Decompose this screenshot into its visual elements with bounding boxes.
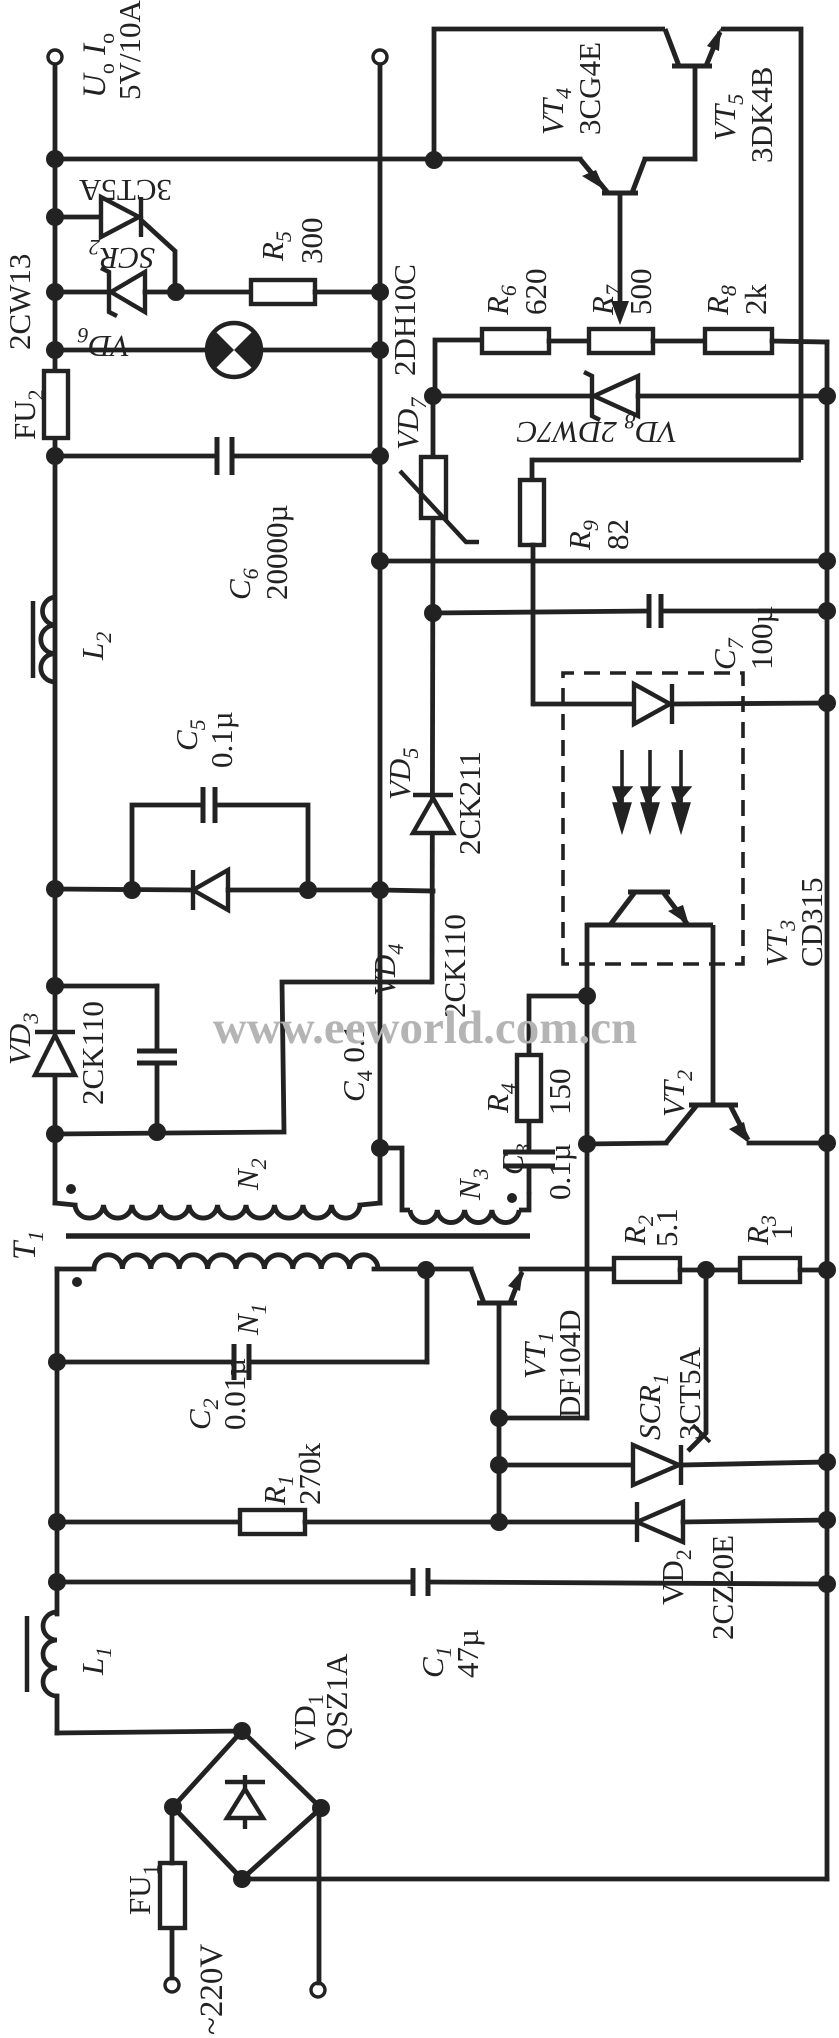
capacitor C4: [137, 1051, 177, 1063]
wire LED feed down: [533, 702, 634, 707]
wire SCR1 anode: [499, 1463, 633, 1468]
light arrow 1: [615, 750, 630, 829]
wire SCR1 gate: [688, 1270, 706, 1451]
wire output sense line upper: [55, 157, 580, 162]
junction bridge right vertex: [233, 1722, 251, 1740]
bridge rectifier VD1: [173, 1731, 321, 1879]
wire FU1 to bridge: [170, 1807, 175, 1863]
svg-text:~220V: ~220V: [194, 1944, 230, 2035]
junction VD8 on bottom rail: [818, 387, 836, 405]
terminal AC input upper: [165, 1978, 179, 1992]
junction W1 to VT2 collector: [578, 1135, 596, 1153]
junction C1 bottom on bottom rail: [818, 1575, 836, 1593]
resistor R5: [251, 280, 315, 304]
wire N3 to C3: [527, 1166, 532, 1192]
wire VT4 base to R7 wiper: [618, 193, 623, 313]
wire N2 top jog to rail A: [55, 1203, 75, 1205]
capacitor C6: [217, 437, 232, 475]
wire C4 to left leg: [155, 1063, 160, 1132]
wire R6 top jog: [435, 340, 482, 396]
wire R2 to R3: [680, 1268, 740, 1273]
wire VT5 base: [693, 70, 698, 159]
transistor VT1: [471, 1269, 522, 1303]
optocoupler dashed box: [563, 673, 743, 964]
wire R8 to bottom rail: [772, 341, 827, 342]
svg-text:1: 1: [764, 1225, 799, 1241]
wire VD8 lower to bottom rail: [638, 394, 827, 399]
resistor R4: [517, 1055, 541, 1121]
transformer T1 core: [66, 1233, 530, 1239]
diode VD2: [637, 1502, 683, 1542]
junction SCR2 top on rail A: [46, 208, 64, 226]
svg-text:150: 150: [542, 1069, 577, 1116]
wire VD2 anode to bottom rail: [683, 1520, 827, 1522]
wire VD4 lower to mid rail: [228, 888, 380, 893]
transformer winding N2: [75, 1205, 360, 1218]
transformer winding N3: [410, 1210, 519, 1223]
wire C6 upper: [55, 454, 217, 459]
wire VT1 base node line: [497, 1303, 502, 1522]
wire bridge positive up to rail B: [57, 1731, 242, 1733]
svg-text:3CG4E: 3CG4E: [572, 42, 607, 135]
junction x1477 on bottom rail: [818, 552, 836, 570]
junction lamp top on rail A: [46, 341, 64, 359]
svg-text:5V/10A: 5V/10A: [112, 0, 147, 100]
capacitor C7: [649, 594, 661, 628]
junction bridge bottom vertex: [312, 1799, 330, 1817]
zener diode VD8: [584, 372, 638, 420]
wire C1 upper: [57, 1580, 413, 1585]
junction base node B (SCR1): [490, 1456, 508, 1474]
node N2 phase dot: [66, 1184, 76, 1194]
capacitor C2: [234, 1344, 249, 1380]
wire R4 to W1 node: [529, 996, 587, 1055]
svg-text:3DK4B: 3DK4B: [744, 67, 779, 163]
wire N3 top terminal: [380, 1148, 410, 1210]
junction C5 top on VD4 line: [123, 881, 141, 899]
junction VD4 line on mid rail: [371, 881, 389, 899]
junction C7 on bottom rail: [818, 602, 836, 620]
svg-text:0.01µ: 0.01µ: [217, 1358, 252, 1430]
thyristor SCR2: [101, 197, 141, 237]
wire C7 lower: [661, 609, 827, 614]
svg-text:3CT5A: 3CT5A: [78, 173, 172, 208]
svg-text:270k: 270k: [292, 1443, 327, 1506]
wire C5 loop lower: [215, 805, 308, 890]
junction C4 right on rail A: [46, 977, 64, 995]
fuse FU1: [160, 1863, 185, 1928]
diode VD5: [413, 795, 453, 833]
junction C6 on mid rail: [371, 447, 389, 465]
wire N1 bottom to VT1 collector node: [374, 1267, 426, 1272]
svg-text:DF104D: DF104D: [552, 1309, 587, 1418]
terminal output negative: [373, 50, 387, 64]
svg-text:500: 500: [623, 269, 658, 316]
wire lamp upper: [55, 348, 207, 353]
svg-text:2CK110: 2CK110: [75, 1001, 110, 1105]
wire C7 upper: [433, 611, 649, 613]
wire VT1 collector: [426, 1267, 471, 1272]
junction SCR2 gate on VD6-R5 line: [167, 283, 185, 301]
wire bridge negative down to bottom rail: [242, 1877, 827, 1882]
junction lamp on mid rail: [371, 341, 389, 359]
wire W1 feedback line: [585, 925, 590, 1418]
wire R6 to R7: [549, 339, 589, 344]
resistor R6: [482, 329, 549, 353]
light arrow 2: [643, 750, 658, 829]
wire mid rail to bottom rail link: [380, 559, 827, 564]
svg-text:VD8 2DW7C: VD8 2DW7C: [517, 409, 677, 450]
junction VT1 collector node: [417, 1261, 435, 1279]
svg-text:0.1µ: 0.1µ: [204, 711, 239, 768]
wire VD5-VD7 line: [432, 518, 433, 982]
transformer winding N1: [94, 1255, 378, 1269]
wire R9 left to LED feed: [531, 545, 536, 704]
wire C4 right leg: [55, 984, 157, 989]
wire LED cathode to bottom rail: [672, 703, 827, 704]
wire SCR2 anode: [55, 215, 101, 220]
wire N1 top jog: [57, 1267, 94, 1272]
svg-text:47µ: 47µ: [450, 1629, 485, 1678]
svg-text:620: 620: [518, 269, 553, 316]
inductor L2: [41, 597, 55, 682]
terminal output positive: [48, 50, 62, 64]
junction LED on bottom rail: [818, 694, 836, 712]
junction C2 top on rail B: [48, 1353, 66, 1371]
wire C4 to right leg: [155, 986, 160, 1051]
junction base node C (R1/VD2): [490, 1513, 508, 1531]
wire C1 lower: [428, 1582, 827, 1584]
svg-text:20000µ: 20000µ: [259, 505, 294, 600]
wire VD6 anode to R5: [145, 290, 251, 295]
junction VT2 emitter on bottom rail: [818, 1134, 836, 1152]
junction R1 top on rail B: [48, 1513, 66, 1531]
light arrow 3: [674, 750, 689, 829]
svg-text:100µ: 100µ: [744, 606, 779, 670]
svg-text:CD315: CD315: [794, 877, 829, 967]
svg-text:QSZ1A: QSZ1A: [319, 1653, 354, 1750]
junction R3 on bottom rail: [818, 1261, 836, 1279]
resistor R7 (potentiometer): [589, 329, 653, 353]
wire R5 lower: [315, 290, 380, 295]
zener diode VD6: [101, 268, 145, 316]
wire R1 lower to base node: [305, 1520, 499, 1525]
capacitor C3: [503, 1152, 555, 1166]
junction VD4 top on rail A: [46, 880, 64, 898]
wire VT5 collector loop: [434, 29, 665, 160]
junction C1 top on rail B: [48, 1573, 66, 1591]
wire lamp lower: [261, 348, 380, 353]
inductor L1: [43, 1612, 57, 1696]
junction base node A (W1 branch): [490, 1409, 508, 1427]
wire C2 to VT1 collector node: [425, 1270, 430, 1362]
capacitor C5: [203, 787, 215, 823]
wire R1 upper: [57, 1520, 240, 1525]
wire R9 right: [530, 460, 535, 480]
wire top rail A left segment (N2 to VD3): [53, 1075, 58, 1203]
svg-text:3CT5A: 3CT5A: [672, 1346, 707, 1440]
wire C2 lower: [249, 1360, 427, 1365]
wire VT5 emitter to R9: [532, 458, 801, 463]
resistor R3: [740, 1258, 800, 1282]
wire VD6 cathode: [55, 290, 107, 295]
LED diode (optocoupler): [634, 684, 672, 724]
svg-text:2DH10C: 2DH10C: [387, 264, 422, 376]
wire C5 loop upper: [132, 805, 203, 890]
resistor R8: [705, 329, 772, 353]
wire R7 to R8: [653, 339, 705, 344]
fuse FU2: [44, 371, 68, 438]
wire VT2 collector up to W1: [587, 1143, 666, 1144]
wire mid rail (secondary common): [378, 64, 383, 1203]
thyristor SCR1: [633, 1445, 681, 1485]
junction x1879 on rail A: [46, 150, 64, 168]
transistor VT4: [580, 159, 645, 193]
diode VD3 (in top rail): [35, 1032, 75, 1075]
phototransistor VT3: [587, 892, 713, 925]
diode VD4: [193, 870, 228, 910]
wire N3 bottom terminal: [519, 1192, 529, 1210]
junction VD5 line to C7 line: [424, 604, 442, 622]
junction N3 top on mid rail: [371, 1139, 389, 1157]
wire R3 to bottom rail: [800, 1268, 827, 1273]
svg-text:5.1: 5.1: [649, 1208, 684, 1247]
svg-text:2k: 2k: [738, 284, 773, 316]
wire VD2 cathode: [499, 1520, 637, 1525]
resistor R9: [520, 480, 544, 545]
junction bridge left vertex: [233, 1870, 251, 1888]
junction VD7/VD8/R6 node: [424, 387, 442, 405]
wire VD8 upper: [433, 394, 590, 399]
wire VT3 emitter leg / VT2 base: [711, 925, 716, 1105]
svg-text:82: 82: [600, 519, 635, 550]
transistor VT2: [666, 1105, 748, 1143]
resistor R2: [614, 1258, 680, 1282]
svg-text:300: 300: [294, 218, 329, 265]
junction C4 on left leg: [148, 1123, 166, 1141]
varistor diode VD7: [421, 457, 446, 518]
wire SCR2 gate: [141, 220, 175, 292]
wire VT2 emitter to bottom rail: [749, 1141, 827, 1146]
wire top rail B segment bridge to L1: [55, 1696, 60, 1733]
junction VD2 on bottom rail: [818, 1511, 836, 1529]
wire VT5 emitter down: [721, 29, 801, 460]
VT2 emitter arrow: [729, 1122, 749, 1143]
wire bottom rail (primary negative): [825, 342, 830, 1879]
junction C5 bottom on VD4 line: [299, 881, 317, 899]
wire VD4 line to VD5 line: [380, 890, 433, 891]
R7 wiper arrowhead: [611, 301, 629, 325]
wire C3 to R4: [527, 1121, 532, 1152]
wire C2 upper: [57, 1360, 234, 1365]
wire VT1 emitter to R2: [521, 1267, 614, 1272]
junction SCR1 on bottom rail: [818, 1453, 836, 1471]
wire N2 bottom jog to mid rail: [360, 1203, 380, 1205]
junction R2-R3 tap (SCR1 gate): [697, 1261, 715, 1279]
svg-text:www.eeworld.com.cn: www.eeworld.com.cn: [213, 1002, 637, 1054]
junction C4 loop left on rail A: [46, 1125, 64, 1143]
junction C6 top on rail A: [46, 447, 64, 465]
svg-text:2CZ20E: 2CZ20E: [705, 1535, 740, 1640]
wire SCR1 cathode to bottom rail: [681, 1462, 827, 1465]
label leader SCR1: [693, 1425, 710, 1442]
bridge VD1 inner diode: [225, 1775, 265, 1829]
junction bridge top vertex: [164, 1798, 182, 1816]
indicator lamp: [207, 323, 261, 377]
wire branch A down to W1: [499, 1416, 587, 1421]
transistor VT1 emitter arrow: [508, 1269, 523, 1291]
svg-text:0.1µ: 0.1µ: [542, 1143, 577, 1200]
wire top rail A right segment (VD3 to output+): [53, 64, 58, 1032]
wire input to FU1: [170, 1928, 175, 1978]
transistor VT4 emitter arrow (PNP): [582, 170, 605, 190]
junction VD6 top on rail A: [46, 283, 64, 301]
capacitor C1: [413, 1568, 428, 1596]
node N3 phase dot: [507, 1193, 517, 1203]
resistor R1: [240, 1510, 305, 1534]
wire VD4 upper: [55, 889, 190, 890]
wire VD7 to VD8 node: [431, 396, 436, 457]
node N1 phase dot: [72, 1277, 82, 1287]
wire C6 lower: [232, 454, 380, 459]
svg-text:2CK211: 2CK211: [452, 751, 487, 855]
terminal AC input lower: [311, 1983, 325, 1997]
wire C4 loop left leg: [55, 982, 432, 1134]
wire input lower to bridge: [317, 1808, 322, 1983]
junction R5 on mid rail: [371, 283, 389, 301]
junction R4 branch on W1: [578, 987, 596, 1005]
wire top rail B segment L1 to N1: [55, 1269, 60, 1614]
transistor VT5: [665, 29, 720, 66]
wire VT4 collector to VT5 base: [645, 157, 695, 162]
junction x1477 on mid rail: [371, 552, 389, 570]
svg-text:2CW13: 2CW13: [2, 254, 37, 350]
transistor VT5 emitter arrow: [707, 28, 721, 51]
VT3 emitter arrow: [668, 905, 689, 925]
junction VT5 collector branch: [425, 151, 443, 169]
